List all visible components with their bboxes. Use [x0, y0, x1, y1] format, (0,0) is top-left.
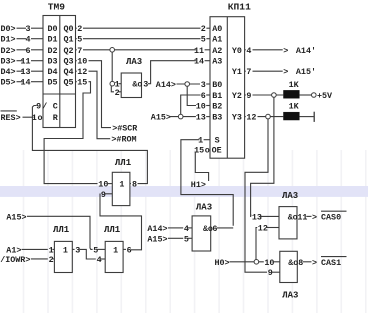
svg-text:D0: D0: [48, 24, 58, 34]
pin stub 5: [97, 248, 105, 250]
svg-text:D1>: D1>: [1, 35, 16, 45]
svg-text:A15>: A15>: [147, 234, 167, 244]
svg-text:/: /: [42, 102, 47, 112]
svg-text:A1>: A1>: [6, 245, 21, 255]
svg-text:8: 8: [132, 180, 137, 190]
svg-text:>: >: [283, 46, 288, 56]
branch A15 up to B1: [181, 95, 201, 114]
svg-text:D2>: D2>: [1, 46, 16, 56]
svg-text:D3>: D3>: [1, 57, 16, 67]
pin stub Q2: [76, 49, 77, 51]
svg-text:A14>: A14>: [147, 224, 167, 234]
pin stub Q4: [76, 70, 77, 72]
pin stub Q1: [76, 38, 77, 40]
svg-text:ЛА3: ЛА3: [282, 291, 298, 301]
svg-text:11: 11: [297, 212, 307, 222]
svg-text:o: o: [137, 80, 142, 90]
pin stub 2: [118, 91, 121, 93]
wire D1 to pin 4: [17, 38, 27, 40]
wire Q2 junction down to gate input: [111, 52, 113, 82]
svg-text:D0>: D0>: [1, 24, 16, 34]
svg-text:>#SCR: >#SCR: [112, 124, 138, 134]
svg-text:B1: B1: [212, 91, 222, 101]
svg-text:5: 5: [201, 35, 206, 45]
pin stub Y2: [245, 94, 246, 96]
svg-text:4: 4: [184, 224, 189, 234]
svg-text:1K: 1K: [289, 80, 300, 90]
IC U1 TM9 body: [43, 16, 76, 128]
svg-text:14: 14: [20, 78, 30, 88]
wire D2 to pin 6: [17, 49, 27, 51]
wire Q2 to A2: [83, 49, 196, 51]
svg-text:6: 6: [212, 224, 217, 234]
svg-text:1: 1: [119, 180, 124, 190]
svg-text:A15': A15': [296, 67, 316, 77]
wire R2 to terminal: [299, 116, 313, 118]
svg-text:2: 2: [201, 24, 206, 34]
svg-text:A0: A0: [212, 24, 222, 34]
pin stub D5: [31, 81, 43, 83]
svg-text:H0>: H0>: [215, 258, 230, 268]
svg-text:8: 8: [298, 258, 303, 268]
svg-text:D5: D5: [48, 78, 58, 88]
svg-text:B3: B3: [212, 113, 222, 123]
pin stub Q0: [76, 27, 77, 29]
wire S select feed from gate D2.2: [181, 140, 233, 226]
pin stub 10: [273, 261, 280, 263]
CAS1 overline: [321, 256, 347, 258]
wire out 3 to D3.3 pin 4: [79, 249, 96, 259]
wire A15 to pin 5: [168, 237, 183, 239]
branch Y3 down to CAS1 gate pin 9: [245, 119, 268, 273]
svg-text:12: 12: [77, 67, 87, 77]
wire Q3 to #SCR: [89, 61, 112, 128]
svg-text:9: 9: [268, 268, 273, 278]
svg-text:Y1: Y1: [232, 67, 242, 77]
svg-text:>#ROM: >#ROM: [111, 135, 136, 145]
svg-text:5: 5: [77, 35, 82, 45]
svg-text:/IOWR>: /IOWR>: [0, 255, 30, 265]
pin stub S: [204, 139, 210, 141]
svg-text:2: 2: [115, 88, 120, 98]
svg-text:6: 6: [201, 91, 206, 101]
svg-text:12: 12: [258, 224, 268, 234]
svg-text:CAS1: CAS1: [321, 258, 341, 268]
terminal bar: [313, 112, 315, 122]
svg-text:2: 2: [77, 24, 82, 34]
svg-text:A15>: A15>: [151, 113, 171, 123]
pin stub 1: [52, 248, 54, 250]
gate D2.3 body: [279, 207, 297, 239]
svg-text:A15>: A15>: [6, 212, 26, 222]
wire Y1 out: [253, 70, 283, 72]
svg-text:7: 7: [246, 67, 251, 77]
svg-text:A2: A2: [212, 46, 222, 56]
wire Y0 out: [253, 49, 283, 51]
wire RES to R pin: [23, 116, 34, 118]
svg-text:4: 4: [97, 255, 102, 265]
svg-text:ЛА3: ЛА3: [282, 191, 298, 201]
svg-text:Q5: Q5: [64, 78, 74, 88]
svg-text:>: >: [283, 67, 288, 77]
junction Y3: [266, 114, 271, 119]
svg-text:6: 6: [25, 46, 30, 56]
svg-text:9: 9: [101, 190, 106, 200]
svg-text:15: 15: [77, 78, 87, 88]
pin stub 2: [52, 258, 54, 260]
pin stub 13: [260, 215, 279, 217]
wire out 8 to TM9 clock: [32, 106, 147, 184]
pin stub Q3: [76, 60, 77, 62]
TM9 column divider: [59, 16, 61, 128]
wire Q5 to LL1 pin 10: [44, 82, 97, 184]
svg-text:2: 2: [49, 255, 54, 265]
pin stub B0: [206, 83, 210, 85]
svg-text:Y2: Y2: [232, 91, 242, 101]
pin stub 4: [101, 258, 106, 260]
svg-text:OE: OE: [212, 145, 222, 155]
pin stub 4: [188, 227, 192, 229]
pin stub Q5: [76, 81, 77, 83]
svg-text:B0: B0: [212, 80, 222, 90]
terminal circle +5V: [312, 93, 317, 98]
svg-text:12: 12: [246, 113, 256, 123]
pin stub 9: [272, 271, 280, 273]
svg-text:D4: D4: [48, 67, 58, 77]
svg-text:3: 3: [143, 80, 148, 90]
wire A1 to pin 1: [22, 248, 48, 250]
selection highlight band: [0, 186, 368, 197]
pin 6 out stub: [123, 248, 126, 250]
gate D3.1 body: [112, 172, 130, 205]
svg-text:>: >: [312, 258, 317, 268]
svg-text:>: >: [312, 212, 317, 222]
svg-text:o: o: [38, 113, 43, 123]
pin 3 out stub: [72, 248, 74, 250]
pin stub Y1: [245, 70, 246, 72]
svg-text:3: 3: [75, 245, 80, 255]
svg-text:RES>: RES>: [1, 113, 21, 123]
svg-text:ТМ9: ТМ9: [48, 1, 66, 12]
svg-text:A14': A14': [296, 46, 316, 56]
svg-text:10: 10: [98, 180, 108, 190]
junction A14: [185, 82, 190, 87]
wire Y2 out: [253, 94, 284, 96]
svg-text:КП11: КП11: [228, 1, 251, 12]
svg-text:A14>: A14>: [156, 80, 176, 90]
gate D3.2 body: [54, 241, 72, 272]
svg-text:A3: A3: [212, 57, 222, 67]
RES overline: [1, 110, 17, 112]
svg-text:Y3: Y3: [232, 113, 242, 123]
svg-text:11: 11: [194, 46, 204, 56]
resistor R1 body: [284, 90, 300, 98]
svg-text:1: 1: [63, 245, 68, 255]
svg-text:1K: 1K: [289, 101, 300, 111]
svg-text:ЛЛ1: ЛЛ1: [115, 158, 132, 168]
wire D5 to pin 14: [17, 81, 23, 83]
wire IOWR to pin 2: [31, 258, 48, 260]
svg-text:Y0: Y0: [232, 46, 242, 56]
svg-text:1: 1: [49, 245, 54, 255]
KP11 column divider: [226, 17, 228, 159]
svg-text:14: 14: [194, 57, 204, 67]
pin stub D0: [31, 27, 43, 29]
pin stub B2: [206, 105, 210, 107]
wire D4 to pin 13: [17, 70, 23, 72]
junction Y2: [272, 93, 277, 98]
gate D1.1 body: [121, 73, 141, 98]
pin stub 9: [105, 193, 112, 195]
wire Q1 to A1: [83, 38, 201, 40]
wire A14 to B0: [177, 83, 201, 85]
svg-text:D2: D2: [48, 46, 58, 56]
wire A14 to pin 4: [168, 227, 183, 229]
svg-text:9: 9: [36, 102, 41, 112]
gate D2.4 body: [280, 251, 298, 282]
svg-text:Q0: Q0: [64, 24, 74, 34]
svg-text:3: 3: [201, 80, 206, 90]
svg-text:13: 13: [252, 212, 262, 222]
pin stub A3: [205, 60, 210, 62]
wire A15 to B3: [169, 116, 196, 118]
pin stub D3: [31, 60, 43, 62]
svg-text:ЛЛ1: ЛЛ1: [104, 225, 121, 235]
pin stub B3: [206, 116, 210, 118]
pin stub A0: [206, 27, 210, 29]
branch Y2 down to CAS0 gate pin 13: [251, 97, 274, 215]
svg-text:9: 9: [246, 91, 251, 101]
svg-text:11: 11: [20, 57, 30, 67]
IC U2 KP11 body: [210, 17, 245, 159]
branch A14 down to B2: [187, 86, 196, 105]
svg-text:6: 6: [127, 245, 132, 255]
wire OE feed from H1: [195, 152, 208, 182]
svg-text:D1: D1: [48, 35, 58, 45]
svg-text:5: 5: [93, 245, 98, 255]
svg-text:D5>: D5>: [1, 78, 16, 88]
TM9 control section separator: [43, 93, 76, 95]
svg-text:Q3: Q3: [64, 57, 74, 67]
wire D3 to pin 11: [17, 60, 23, 62]
wire Q4 to #ROM: [89, 71, 111, 139]
pin stub D4: [31, 70, 43, 72]
svg-text:Q2: Q2: [64, 46, 74, 56]
wire gate out 3 to A3: [148, 61, 196, 84]
svg-text:CAS0: CAS0: [321, 212, 341, 222]
svg-text:10: 10: [196, 102, 206, 112]
svg-text:B2: B2: [212, 102, 222, 112]
svg-text:1: 1: [198, 136, 203, 146]
svg-text:ЛА3: ЛА3: [126, 57, 142, 67]
resistor R2 body: [284, 112, 300, 120]
pin stub Y0: [245, 49, 246, 51]
svg-text:+5V: +5V: [317, 91, 333, 101]
wire A15 to LL1 D3.3 pin 5: [27, 216, 93, 249]
faint editor grid columns: [23, 150, 25, 313]
pin 9 feed from gate D3.3 out: [100, 194, 142, 250]
tie wire input 1 to input 2: [111, 86, 114, 92]
svg-text:Q1: Q1: [64, 35, 74, 45]
svg-text:C: C: [53, 102, 58, 112]
pin stub 5: [188, 237, 192, 239]
svg-text:7: 7: [77, 46, 82, 56]
pin 8 out stub: [130, 183, 131, 185]
svg-text:ЛЛ1: ЛЛ1: [53, 225, 70, 235]
pin stub B1: [206, 94, 210, 96]
wire D0 to pin 3: [17, 27, 27, 29]
CAS0 overline: [321, 210, 347, 212]
wire H0 to CAS1 pin 10: [230, 261, 264, 263]
pin stub D2: [31, 49, 43, 51]
junction on Q2 wire: [110, 48, 115, 53]
svg-text:D4>: D4>: [1, 67, 16, 77]
junction at gate input 1: [110, 81, 115, 86]
svg-text:4: 4: [246, 46, 251, 56]
junction A15: [178, 114, 183, 119]
pin stub Y3: [245, 116, 246, 118]
svg-text:13: 13: [196, 113, 206, 123]
pin stub A2: [205, 49, 210, 51]
svg-text:A1: A1: [212, 35, 222, 45]
wire out 8: [303, 261, 312, 263]
branch H0 up to CAS0 pin 12: [256, 228, 257, 260]
svg-text:o: o: [205, 145, 210, 155]
svg-text:10: 10: [77, 57, 87, 67]
pin stub D1: [31, 38, 43, 40]
junction H0: [254, 260, 259, 265]
wire Y3 out: [258, 116, 284, 118]
svg-text:5: 5: [184, 234, 189, 244]
svg-text:10: 10: [264, 258, 274, 268]
pin stub 1: [118, 83, 121, 85]
svg-text:Q4: Q4: [64, 67, 74, 77]
svg-text:ЛА3: ЛА3: [196, 202, 212, 212]
pin stub 10: [107, 183, 113, 185]
svg-text:3: 3: [25, 24, 30, 34]
pin 13 wire corner: [250, 215, 253, 216]
gate D2.2 body: [192, 216, 211, 251]
svg-text:4: 4: [25, 35, 30, 45]
svg-text:D3: D3: [48, 57, 58, 67]
svg-text:S: S: [215, 136, 220, 146]
wire Q0 to A0: [83, 27, 201, 29]
wire out 6 toward S: [217, 227, 234, 229]
gate D3.3 body: [105, 241, 123, 272]
pin stub 12: [266, 227, 279, 229]
pin stub A1: [206, 38, 210, 40]
wire out 11: [306, 215, 311, 217]
svg-text:1: 1: [113, 245, 118, 255]
svg-text:H1>: H1>: [191, 180, 206, 190]
wire R1 to +5V: [299, 94, 312, 96]
svg-text:13: 13: [20, 67, 30, 77]
